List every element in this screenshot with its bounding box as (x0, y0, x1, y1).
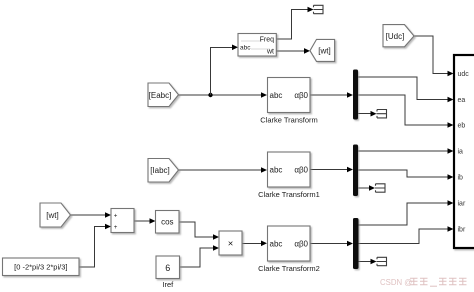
svg-text:ea: ea (458, 97, 466, 104)
From block Iabc (148, 159, 179, 183)
wire Clarke Transform2 to Mux3 (310, 241, 353, 247)
svg-text:abc: abc (270, 166, 283, 175)
svg-text:CSDN @: CSDN @ (380, 278, 412, 287)
wire Mux3 out2 to ibr input (359, 226, 454, 243)
From block Eabc (148, 83, 179, 107)
wire Freq wt output to Goto wt (276, 48, 310, 54)
svg-text:Clarke Transform1: Clarke Transform1 (258, 190, 320, 199)
svg-text:Clarke Transform2: Clarke Transform2 (258, 264, 320, 273)
Terminator T1 (314, 5, 324, 13)
svg-text:abc: abc (270, 240, 283, 249)
Constant block 6 (Iref) (156, 256, 180, 289)
Mux1 (353, 70, 358, 120)
svg-text:eb: eb (458, 123, 466, 130)
svg-text:[Iabc]: [Iabc] (150, 166, 170, 175)
Clarke Transform1 block (258, 152, 320, 199)
Constant block phase vector (3, 258, 80, 276)
svg-text:[Udc]: [Udc] (386, 32, 405, 41)
PLL block Freq (238, 34, 276, 57)
svg-text:αβ0: αβ0 (294, 91, 308, 100)
wire phase constant to Sum input2 (79, 224, 111, 267)
svg-text:+: + (114, 224, 118, 231)
From block Udc (383, 25, 414, 47)
Sum block (111, 209, 134, 233)
From block wt (40, 203, 71, 227)
svg-text:Freq: Freq (260, 37, 275, 44)
wire Mux3 out3 to terminator T4 (359, 259, 377, 265)
wire cos to Product input1 (179, 222, 219, 240)
svg-text:iar: iar (458, 201, 466, 208)
wire Udc to big block udc input (414, 36, 454, 76)
wire Mux2 out1 to ia input (358, 148, 454, 154)
Clarke Transform block (260, 78, 318, 125)
node junction on Eabc wire (208, 93, 212, 97)
cos block (156, 211, 180, 234)
svg-text:Iref: Iref (162, 280, 174, 289)
wire Mux1 out2 to eb input (358, 95, 454, 128)
wire Mux1 out3 to terminator T2 (358, 111, 377, 117)
wire junction up to Freq abc input (211, 45, 239, 96)
wire Mux2 out3 to terminator T3 (358, 185, 375, 191)
wire Eabc to Clarke Transform abc (179, 92, 268, 98)
svg-text:wt: wt (266, 49, 274, 56)
wire Product to Clarke Transform2 (242, 241, 267, 247)
wire Clarke Transform to Mux1 (310, 92, 353, 98)
svg-text:[0 -2*pi/3 2*pi/3]: [0 -2*pi/3 2*pi/3] (14, 263, 67, 272)
wire Mux3 out1 to iar input (359, 200, 454, 225)
Terminator T4 (377, 257, 387, 265)
wire Clarke Transform1 to Mux2 (310, 167, 353, 173)
Clarke Transform2 block (258, 226, 320, 273)
wire Mux1 out1 to ea input (358, 77, 454, 102)
Product block (219, 231, 242, 255)
svg-text:ia: ia (458, 149, 464, 156)
wire Mux2 out2 to ib input (358, 170, 454, 180)
Mux3 (353, 218, 359, 269)
svg-text:abc: abc (240, 45, 251, 52)
svg-text:[wt]: [wt] (46, 211, 58, 220)
svg-text:abc: abc (270, 91, 283, 100)
Mux2 (353, 145, 358, 197)
wire Freq output to terminator T1 (276, 7, 313, 39)
svg-text:ibr: ibr (458, 227, 466, 234)
wire Iabc to Clarke Transform1 (179, 167, 268, 173)
Terminator T3 (375, 184, 385, 192)
svg-text:6: 6 (165, 263, 170, 273)
svg-text:[wt]: [wt] (318, 47, 330, 56)
watermark CSDN (380, 278, 467, 287)
svg-text:ib: ib (458, 175, 464, 182)
Terminator T2 (377, 110, 387, 118)
svg-text:Clarke Transform: Clarke Transform (260, 116, 318, 125)
wire wt From to Sum input1 (71, 212, 112, 218)
svg-text:×: × (228, 239, 234, 250)
Scope big block (454, 55, 474, 248)
wire Sum to cos (134, 218, 156, 224)
svg-text:[Eabc]: [Eabc] (149, 91, 172, 100)
svg-text:cos: cos (161, 218, 173, 227)
svg-text:udc: udc (458, 71, 470, 78)
svg-text:+: + (114, 213, 118, 220)
Goto block wt (310, 39, 335, 61)
wire constant 6 to Product input2 (180, 245, 220, 267)
svg-text:αβ0: αβ0 (294, 240, 308, 249)
svg-text:αβ0: αβ0 (294, 166, 308, 175)
